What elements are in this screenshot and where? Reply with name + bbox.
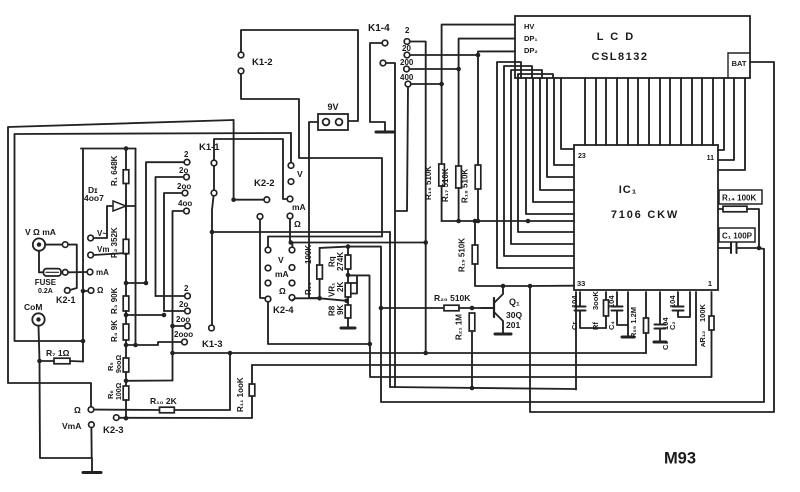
- switch contact K2-1 top: [62, 242, 68, 248]
- svg-text:R₃ 90K: R₃ 90K: [110, 287, 119, 314]
- node tap 2V: [124, 281, 129, 286]
- node tap400/HV: [439, 82, 444, 87]
- svg-text:C₃: C₃: [661, 341, 670, 350]
- wire K1-2 lower to K2-4: [241, 75, 382, 247]
- switch contact K1-1 lower: [211, 190, 217, 196]
- resistor R10 2K: [94, 409, 159, 411]
- node tap2/bus: [423, 351, 428, 356]
- switch tap contact 200 (lower): [185, 323, 191, 329]
- svg-text:2ооо: 2ооо: [174, 330, 193, 339]
- wire Vm to divider: [94, 253, 126, 255]
- switch contact K2-4 right 4: [289, 295, 295, 301]
- switch contact K1-3: [209, 325, 215, 331]
- svg-text:mA: mA: [96, 268, 109, 277]
- switch contact Vm: [88, 252, 94, 258]
- switch contact K2-4 right 3: [289, 280, 295, 286]
- wire D1 cathode rail: [135, 149, 137, 346]
- wire BAT to bottom right bus: [530, 62, 774, 412]
- switch contact K2-3 right: [114, 415, 120, 421]
- svg-text:CоM: CоM: [24, 302, 42, 312]
- svg-text:104: 104: [668, 295, 677, 308]
- svg-text:1: 1: [708, 279, 712, 288]
- svg-text:mA: mA: [292, 202, 306, 212]
- switch contact K2-1 middle: [62, 270, 68, 276]
- potentiometer VR1 2K: [345, 283, 351, 297]
- node R20 left: [379, 306, 384, 311]
- wire K1-1 upper to mA right: [214, 139, 287, 199]
- wire HV to R16: [442, 25, 515, 164]
- switch contact K2-4 left 3: [265, 280, 271, 286]
- wire battery - down to R13 node: [309, 122, 320, 298]
- wire VR1 wiper bracket: [351, 283, 357, 294]
- wire 20 left down: [156, 177, 184, 296]
- svg-text:33: 33: [577, 279, 585, 288]
- svg-text:3ооK: 3ооK: [591, 291, 600, 310]
- switch contact ohm: [88, 288, 94, 294]
- wire K2-1 middle to mA: [68, 271, 87, 273]
- switch contact K2-4 left 2: [265, 265, 271, 271]
- wire R10 to bus: [174, 353, 230, 410]
- switch tap contact 20 (left): [184, 174, 190, 180]
- svg-text:R₁₁ 1ооK: R₁₁ 1ооK: [236, 377, 245, 412]
- svg-text:R₁₇ 510K: R₁₇ 510K: [441, 168, 450, 202]
- svg-text:R₁₃: R₁₃: [304, 282, 313, 295]
- switch contact K1-4 upper: [382, 40, 388, 46]
- resistor R13 100K: [319, 248, 321, 265]
- switch tap contact 400 (left): [184, 208, 190, 214]
- node Q1 collector: [501, 284, 506, 289]
- switch contact V~: [88, 235, 94, 241]
- wire K1-1 lower to K1-3: [212, 196, 214, 325]
- input jack COM: [32, 313, 44, 325]
- resistor R6 100ohm: [123, 386, 129, 400]
- wire K1-2 upper to battery +: [241, 30, 358, 121]
- svg-text:BAT: BAT: [732, 59, 747, 68]
- wire LCD segment bus middle group: [584, 78, 586, 145]
- wire R13 top to R9 top: [320, 247, 348, 248]
- wire tap to col1: [126, 282, 146, 284]
- node tap20/DP2: [476, 53, 481, 58]
- resistor R14 100K: [719, 190, 762, 204]
- switch tap contact 2 (lower): [185, 293, 191, 299]
- capacitor C1 100P: [719, 228, 755, 242]
- svg-text:11: 11: [707, 155, 715, 162]
- wire K1-3 net horizontal: [212, 231, 390, 233]
- svg-text:100K: 100K: [698, 303, 707, 322]
- wire tap400 right: [411, 83, 442, 85]
- wire 200 lower: [173, 325, 185, 327]
- ground near battery: [376, 131, 394, 134]
- wire ohm-left to K2-4 ohm row: [260, 219, 265, 298]
- switch tap contact 20 (lower): [185, 308, 191, 314]
- svg-text:100K: 100K: [304, 245, 313, 264]
- switch contact K1-1 upper: [211, 160, 217, 166]
- wire K1-4 upper to ground: [370, 43, 385, 131]
- node R7 left: [37, 359, 42, 364]
- wire K2-1 bypass: [68, 245, 77, 290]
- svg-text:R₀₅ 1.2M: R₀₅ 1.2M: [629, 307, 638, 338]
- svg-text:R₁₄ 100K: R₁₄ 100K: [722, 194, 756, 203]
- wire K2-4 right bottom to R13: [292, 298, 320, 300]
- wire tap2 branch to K2-4: [292, 243, 425, 247]
- svg-text:CSL8132: CSL8132: [592, 51, 649, 63]
- wire R9/VR1 node to R12 net: [348, 275, 370, 344]
- switch tap contact 200 (left): [182, 190, 188, 196]
- node base/R21: [470, 306, 475, 311]
- svg-text:FUSE: FUSE: [35, 278, 57, 287]
- wire ohm left stub: [83, 290, 87, 292]
- node inner/R7: [81, 339, 86, 344]
- wire to K2-2 V upper: [290, 133, 292, 162]
- svg-text:K2-2: K2-2: [254, 178, 275, 189]
- svg-text:M93: M93: [664, 450, 696, 468]
- wire tap20 right: [410, 54, 478, 56]
- svg-text:R₂₁ 1M: R₂₁ 1M: [455, 314, 464, 340]
- resistor R12 100K: [711, 292, 713, 316]
- switch contact K2-2 ohm right: [287, 213, 293, 219]
- wire R9 top to reference bus: [348, 247, 764, 402]
- svg-text:9V: 9V: [327, 102, 338, 112]
- svg-text:K2-4: K2-4: [273, 305, 294, 316]
- svg-text:R₄ 9K: R₄ 9K: [110, 320, 119, 342]
- ground Q1 emitter: [495, 333, 511, 336]
- wire outer enclosure: [8, 120, 234, 406]
- svg-text:274K: 274K: [336, 252, 345, 271]
- resistor R5 900ohm: [123, 358, 129, 372]
- resistor R18 510K: [475, 165, 481, 189]
- wire outer to mA left: [233, 120, 235, 200]
- wire tap2 long vertical: [410, 42, 426, 354]
- node R9/VR1: [346, 273, 351, 278]
- capacitor C5 104: [579, 292, 581, 306]
- switch contact K2-2 mA right: [287, 196, 293, 202]
- wire VmA to ground: [90, 428, 92, 458]
- resistor Rf 300K: [605, 292, 607, 300]
- svg-text:ᴀR₁₂: ᴀR₁₂: [698, 331, 707, 347]
- node tap200/DP1: [456, 67, 461, 72]
- svg-text:R₂₀ 510K: R₂₀ 510K: [434, 293, 471, 303]
- resistor R9 274K: [345, 255, 351, 269]
- svg-text:V: V: [297, 169, 303, 179]
- resistor R4 9K: [123, 324, 129, 340]
- op-amp U1 / IC1 7106 box: [574, 145, 718, 290]
- switch contact K1-2 upper: [238, 52, 244, 58]
- svg-text:V~: V~: [97, 229, 107, 238]
- switch tap contact 2 (left): [184, 159, 190, 165]
- switch tap contact 200 (right): [404, 66, 410, 72]
- svg-text:R₂ 352K: R₂ 352K: [110, 227, 119, 258]
- wire IC1 pin to bottom bus: [695, 292, 697, 365]
- wire collector to BAT bus: [503, 285, 530, 287]
- svg-text:4оо: 4оо: [178, 199, 192, 208]
- node BAT bus tap: [528, 284, 533, 289]
- switch contact K2-3 VmA: [89, 422, 95, 428]
- resistor R17 510K: [456, 166, 462, 188]
- wire bus R11 to IC pin: [252, 364, 696, 366]
- switch contact K2-4 left 1: [265, 247, 271, 253]
- node bus left end: [170, 351, 175, 356]
- node R12 net join: [368, 342, 373, 347]
- switch contact K2-3 ohm: [88, 407, 94, 413]
- wire bottom bus to IC pin33: [390, 387, 576, 389]
- node tap 2000: [124, 343, 129, 348]
- switch contact K2-2 V upper: [288, 163, 294, 169]
- switch contact K2-2 V lower: [288, 179, 294, 185]
- svg-text:Rf: Rf: [591, 322, 600, 330]
- wire K1-3 net down: [389, 232, 391, 387]
- svg-text:C₁ 100P: C₁ 100P: [722, 232, 753, 241]
- wire node to IC1 left edge: [530, 285, 574, 287]
- wire 400 left down: [173, 211, 184, 381]
- node K1-3 net: [210, 230, 215, 235]
- ground IC1 analog common: [627, 292, 629, 336]
- svg-text:R₁ 648K: R₁ 648K: [110, 155, 119, 186]
- wire tap to col3: [126, 314, 164, 316]
- ground R8: [341, 327, 355, 330]
- switch contact K1-4 lower: [380, 60, 386, 66]
- wire tap 2000 to contact: [126, 342, 181, 345]
- wire K1-1 wiper: [213, 166, 215, 190]
- svg-text:C₄: C₄: [607, 321, 616, 330]
- svg-text:R₁₀ 2K: R₁₀ 2K: [150, 396, 178, 406]
- svg-text:30Q: 30Q: [506, 310, 522, 320]
- node R6 bottom on K2-3 line: [124, 416, 129, 421]
- switch tap contact 2 (right): [404, 39, 410, 45]
- wire tap200 right: [410, 68, 459, 70]
- wire LCD segment bus left group: [497, 62, 574, 268]
- node R9 top: [346, 244, 351, 249]
- battery 9V: [318, 114, 348, 130]
- svg-text:Q₁: Q₁: [509, 297, 520, 307]
- ground main: [83, 471, 101, 474]
- svg-text:104: 104: [570, 295, 579, 308]
- svg-text:9K: 9K: [336, 305, 345, 315]
- wire K1-4 lower long vertical: [387, 63, 396, 387]
- svg-text:K1-4: K1-4: [368, 23, 390, 34]
- wire ohm-right down: [289, 219, 291, 242]
- wire backplane node to IC1: [442, 220, 574, 222]
- node C1/R14 right: [757, 246, 762, 251]
- svg-text:V Ω mA: V Ω mA: [25, 227, 56, 237]
- svg-text:L C D: L C D: [597, 31, 636, 43]
- svg-text:mA: mA: [275, 269, 289, 279]
- svg-text:2K: 2K: [336, 282, 345, 292]
- svg-text:C₂: C₂: [668, 321, 677, 330]
- node tap2 branch: [423, 240, 428, 245]
- svg-text:0.2A: 0.2A: [38, 288, 53, 295]
- wire VR1 wiper link: [356, 275, 358, 283]
- svg-text:R₁₈ 510K: R₁₈ 510K: [461, 169, 470, 203]
- wire divider top: [81, 148, 136, 150]
- node R5/R6 junction: [124, 379, 129, 384]
- svg-text:R₇ 1Ω: R₇ 1Ω: [46, 348, 70, 358]
- switch contact K2-2 mA left: [264, 197, 270, 203]
- wire 2 left down: [146, 162, 184, 283]
- svg-text:DP₂: DP₂: [524, 46, 538, 55]
- switch tap contact 20 (right): [404, 52, 410, 58]
- svg-text:2: 2: [184, 284, 189, 293]
- switch contact K2-1 bottom: [65, 288, 71, 294]
- svg-text:7106 CKW: 7106 CKW: [611, 209, 679, 221]
- switch contact K2-4 right 2: [289, 265, 295, 271]
- wire DP1 to R17: [459, 39, 515, 166]
- svg-text:DP₁: DP₁: [524, 34, 538, 43]
- svg-text:R₅: R₅: [106, 362, 115, 371]
- svg-text:Ω: Ω: [294, 219, 301, 229]
- wire 200 left down: [164, 193, 182, 311]
- wire R19 to Q1 collector: [475, 264, 503, 286]
- svg-text:R₁₆ 510K: R₁₆ 510K: [424, 166, 433, 200]
- wire K2-4 to R12: [268, 302, 712, 377]
- transistor Q1: [493, 298, 495, 317]
- wire LCD segment bus right group: [718, 78, 724, 150]
- wire to VR1 bottom: [320, 298, 347, 301]
- resistor R1 648K: [125, 149, 127, 170]
- resistor R21 1M: [469, 313, 475, 331]
- node R21 to bus: [470, 386, 475, 391]
- switch contact K1-2 lower: [238, 68, 244, 74]
- svg-text:IC₁: IC₁: [619, 184, 638, 196]
- svg-text:4оо7: 4оо7: [84, 193, 104, 203]
- resistor R05 1.2M: [645, 292, 647, 318]
- svg-text:23: 23: [578, 153, 586, 160]
- svg-text:R₁₉ 510K: R₁₉ 510K: [458, 238, 467, 272]
- switch contact K2-4 right 1: [289, 247, 295, 253]
- capacitor C2 104: [677, 292, 679, 306]
- wire IC1 pin33 stub: [575, 292, 577, 390]
- switch contact K2-4 left 4: [265, 296, 271, 302]
- svg-text:Ω: Ω: [279, 286, 286, 296]
- svg-text:V: V: [278, 255, 284, 265]
- resistor R8 9K: [345, 305, 351, 318]
- svg-text:2: 2: [405, 26, 410, 35]
- wire R5/R6 junction to riser: [126, 380, 173, 382]
- wire 2 lower: [156, 295, 185, 297]
- node tap 20: [124, 313, 129, 318]
- svg-text:104: 104: [607, 295, 616, 308]
- svg-text:K1-2: K1-2: [252, 57, 273, 68]
- svg-text:Vm: Vm: [97, 245, 109, 254]
- svg-text:201: 201: [506, 320, 520, 330]
- wire tap400 drop: [396, 87, 408, 211]
- resistor R3 90K: [123, 296, 129, 311]
- diode D1 4007: [113, 201, 126, 211]
- node R13 bottom: [317, 296, 322, 301]
- svg-text:100Ω: 100Ω: [116, 382, 123, 400]
- resistor R2 352K: [123, 239, 129, 253]
- svg-text:Ω: Ω: [97, 286, 104, 295]
- svg-text:Cг: Cг: [570, 321, 579, 330]
- resistor R19 510K: [473, 219, 478, 224]
- wire K2-3 to R11: [119, 396, 252, 418]
- fuse 0.2A: [38, 251, 40, 272]
- wire COM to ground: [39, 326, 93, 471]
- svg-text:2: 2: [184, 150, 189, 159]
- wire bus integrator: [173, 352, 647, 354]
- LCD display module: [515, 16, 750, 78]
- svg-text:K1-1: K1-1: [199, 142, 220, 153]
- svg-text:Ω: Ω: [74, 405, 81, 415]
- switch contact K2-2 ohm left: [257, 214, 263, 220]
- node R10 top: [228, 351, 233, 356]
- resistor R16 510K: [439, 164, 445, 186]
- input jack V-ohm-mA: [33, 238, 45, 250]
- wire inner enclosure: [15, 133, 292, 341]
- resistor R20 510K: [381, 307, 444, 309]
- wire 20 lower: [164, 310, 184, 312]
- BAT terminal box: [728, 52, 750, 54]
- wire V~ to D1 anode: [94, 206, 112, 238]
- wire left shaft: [82, 149, 84, 362]
- wire mA left: [234, 199, 264, 201]
- switch tap contact 400 (right): [405, 81, 411, 87]
- capacitor C3 104: [659, 292, 661, 324]
- svg-text:K1-3: K1-3: [202, 339, 223, 350]
- svg-text:K2-3: K2-3: [103, 425, 124, 436]
- wire R11 top: [251, 365, 253, 384]
- capacitor C4 104: [616, 292, 618, 306]
- svg-text:9ооΩ: 9ооΩ: [116, 355, 123, 373]
- svg-text:VmA: VmA: [62, 421, 81, 431]
- switch tap contact 2000 (lower): [182, 339, 188, 345]
- svg-text:HV: HV: [524, 22, 534, 31]
- svg-text:R₆: R₆: [106, 390, 115, 399]
- switch contact mA: [87, 269, 93, 275]
- wire DP2 to R18: [478, 51, 515, 165]
- svg-text:K2-1: K2-1: [56, 295, 76, 305]
